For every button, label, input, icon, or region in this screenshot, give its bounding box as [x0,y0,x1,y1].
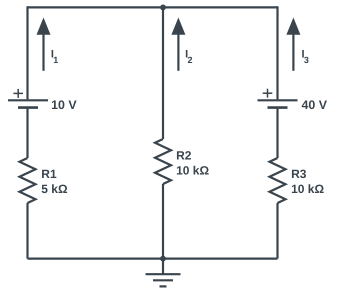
svg-text:5 kΩ: 5 kΩ [41,182,68,196]
battery V1 negative plate [18,106,38,109]
svg-text:3: 3 [304,55,309,65]
svg-text:10 kΩ: 10 kΩ [176,164,209,178]
resistor R1 [20,158,36,203]
wire: middle branch upper (node A down to resistor R2) [162,7,164,139]
node A (top junction dot) [160,5,166,11]
svg-text:10 V: 10 V [51,98,77,112]
wire: left branch upper (top-left corner down to battery V1) [26,6,28,99]
battery V1 positive plate [8,99,48,101]
wire: right branch upper (top-right corner down to battery V2) [276,6,278,99]
wire: bottom bus left of node B [28,258,164,260]
resistor R3 [270,158,286,203]
wire: middle branch lower (R2 down to node B) [162,184,164,259]
resistor R2 [155,139,171,184]
battery V2 positive plate [258,99,298,101]
current arrow I2 [171,18,185,71]
svg-text:10 kΩ: 10 kΩ [291,182,324,196]
svg-text:2: 2 [188,55,193,65]
svg-text:40 V: 40 V [302,98,328,112]
wire: right branch lower (R3 down to bottom-right corner) [276,203,278,259]
current label I3 [302,49,309,65]
wire: left branch between battery V1 and resistor R1 [26,109,28,158]
current arrow I1 [37,18,51,71]
svg-text:R1: R1 [41,167,57,181]
current label I1 [51,49,58,65]
current arrow I3 [286,18,300,71]
current label I2 [185,49,192,65]
wire: top bus from node A right [163,6,278,8]
ground [146,259,181,287]
battery V2 negative plate [268,106,288,109]
wire: top bus from node A left [28,6,164,8]
wire: right branch between battery V2 and resistor R3 [276,109,278,158]
wire: bottom bus right of node B [163,258,278,260]
svg-text:R3: R3 [291,167,307,181]
wire: left branch lower (R1 down to bottom-left corner) [26,203,28,259]
svg-text:1: 1 [53,55,58,65]
battery V1 plus sign [13,89,23,98]
node B (bottom junction dot) [160,256,166,262]
svg-text:R2: R2 [176,149,192,163]
battery V2 plus sign [263,89,273,98]
